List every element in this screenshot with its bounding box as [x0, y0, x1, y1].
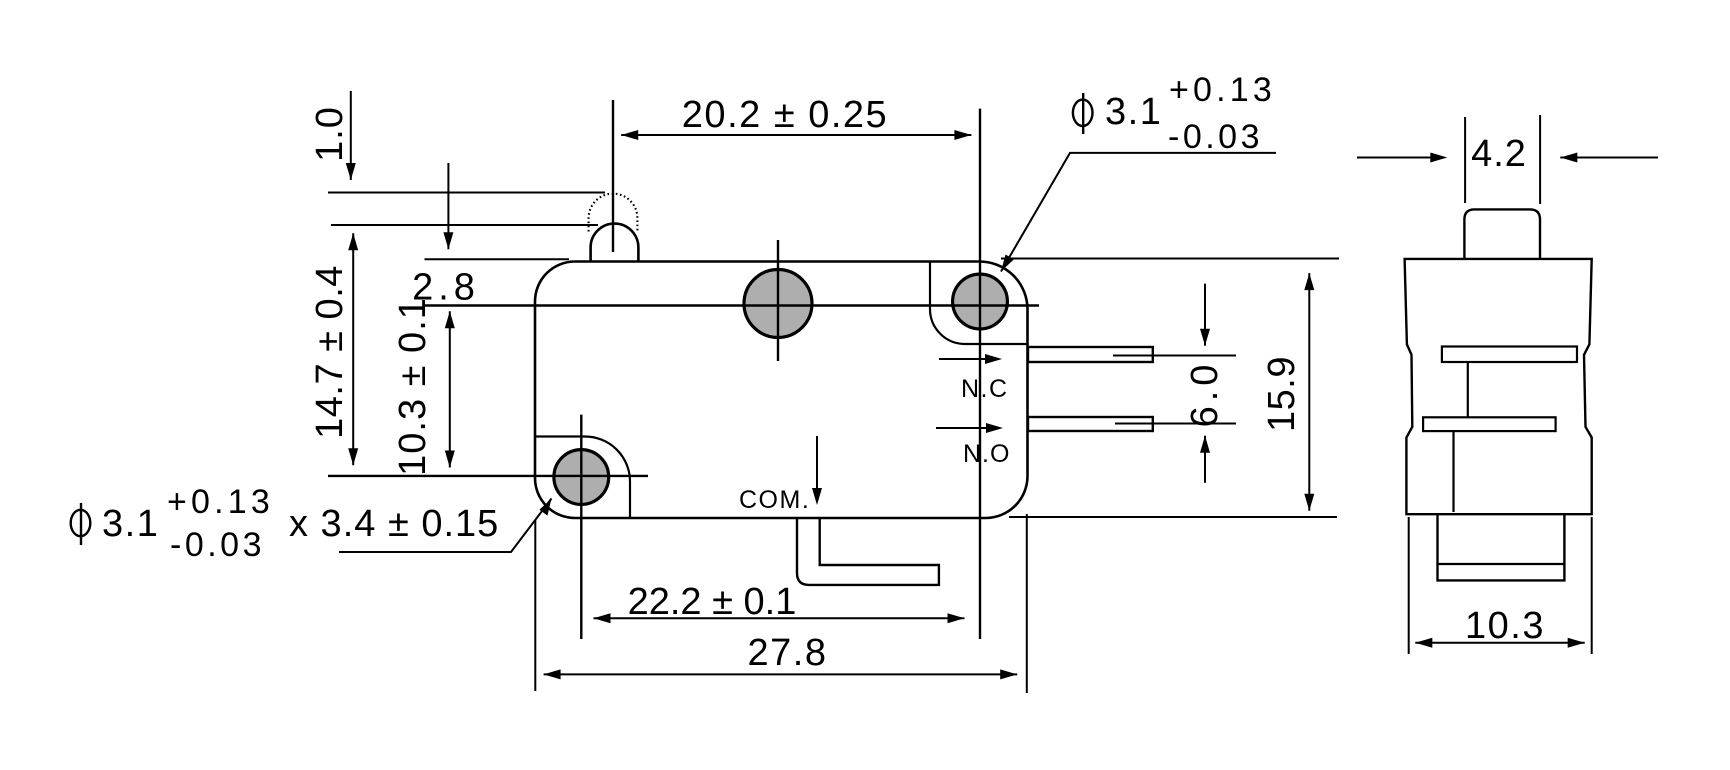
- svg-text:4.2: 4.2: [1471, 133, 1527, 175]
- svg-text:1.0: 1.0: [309, 106, 351, 162]
- svg-text:-0.03: -0.03: [1168, 118, 1263, 156]
- svg-text:-0.03: -0.03: [170, 526, 265, 564]
- svg-text:6.0: 6.0: [1184, 360, 1226, 428]
- svg-text:10.3: 10.3: [1465, 605, 1545, 647]
- svg-text:COM.: COM.: [739, 486, 810, 514]
- svg-text:15.9: 15.9: [1261, 356, 1303, 432]
- svg-text:+0.13: +0.13: [167, 483, 274, 521]
- svg-text:10.3 ± 0.1: 10.3 ± 0.1: [392, 297, 434, 476]
- svg-text:27.8: 27.8: [748, 632, 828, 674]
- svg-text:3.1: 3.1: [102, 503, 159, 545]
- svg-text:3.1: 3.1: [1105, 91, 1162, 133]
- svg-text:+0.13: +0.13: [1169, 71, 1276, 109]
- svg-text:N.C: N.C: [961, 375, 1009, 403]
- svg-text:x 3.4 ± 0.15: x 3.4 ± 0.15: [289, 503, 499, 545]
- svg-text:N.O: N.O: [963, 440, 1010, 468]
- svg-text:20.2 ± 0.25: 20.2 ± 0.25: [682, 94, 888, 136]
- svg-text:22.2 ± 0.1: 22.2 ± 0.1: [628, 581, 797, 623]
- svg-text:14.7 ± 0.4: 14.7 ± 0.4: [309, 265, 351, 439]
